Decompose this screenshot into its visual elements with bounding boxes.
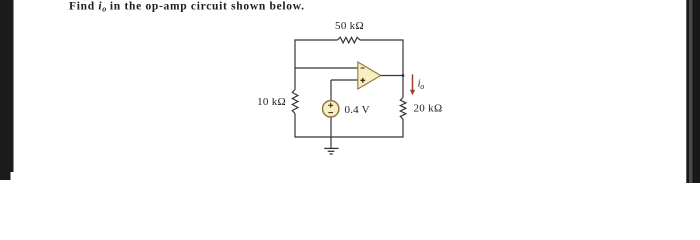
wire: inverting input from left rail	[295, 67, 358, 69]
wire: op-amp output	[381, 75, 403, 77]
wire: left vertical lower	[294, 114, 296, 138]
svg-text:o: o	[420, 82, 424, 91]
wire: noninverting input vertical down to source	[330, 80, 332, 100]
junction dot at output node	[402, 74, 405, 77]
svg-text:10 kΩ: 10 kΩ	[257, 96, 286, 108]
resistor R=50k zigzag	[338, 37, 361, 43]
wire: bottom horizontal	[294, 136, 403, 138]
resistor 20k zigzag	[400, 98, 406, 120]
current arrow i_o	[410, 74, 415, 95]
wire: top right segment	[360, 39, 403, 41]
wire: right vertical upper	[402, 39, 404, 97]
wire: noninverting input horizontal	[331, 79, 358, 81]
ground	[324, 137, 338, 154]
wire: left vertical upper	[294, 39, 296, 89]
op-amp U1	[358, 62, 381, 89]
label i_o	[418, 78, 425, 91]
wire: source bottom to ground rail	[330, 118, 332, 137]
svg-text:50 kΩ: 50 kΩ	[335, 20, 364, 32]
wire: top left segment	[295, 39, 338, 41]
problem statement text	[69, 1, 305, 14]
resistor 10k zigzag	[292, 90, 298, 114]
left page-edge black bar	[0, 0, 14, 180]
svg-text:20 kΩ: 20 kΩ	[414, 103, 443, 115]
right page-edge black bar	[686, 0, 700, 183]
svg-text:0.4 V: 0.4 V	[345, 104, 370, 116]
page background	[0, 0, 700, 183]
voltage source 0.4 V	[323, 101, 339, 117]
wire: right vertical lower	[402, 119, 404, 137]
